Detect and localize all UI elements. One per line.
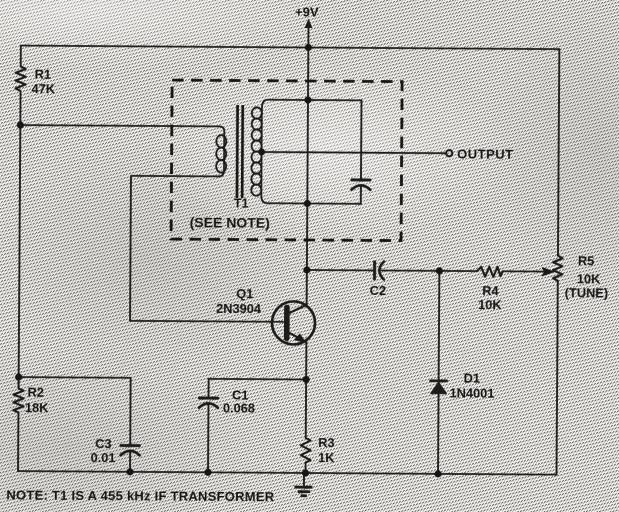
wire C1 top lead: [208, 379, 210, 396]
svg-text:OUTPUT: OUTPUT: [457, 146, 514, 161]
svg-text:NOTE: T1 IS A 455 kHz IF TRAN: NOTE: T1 IS A 455 kHz IF TRANSFORMER: [6, 487, 275, 504]
wire C2 to D1 node: [382, 269, 477, 272]
svg-text:10K: 10K: [478, 297, 502, 312]
wire left rail upper: [20, 46, 22, 67]
wire left rail lower: [17, 412, 19, 471]
wire collector node to C2: [307, 269, 373, 271]
wire secondary right side upper: [360, 100, 363, 178]
resistor R4: [477, 267, 503, 277]
svg-text:R3: R3: [318, 435, 334, 450]
wire bottom rail: [18, 471, 556, 475]
wire transformer center vertical: [306, 100, 309, 204]
wire primary to Q1 base: [130, 176, 284, 322]
capacitor C3: [121, 444, 139, 447]
svg-text:D1: D1: [464, 371, 480, 386]
node D1 / bottom rail junction: [434, 470, 441, 477]
wire 9V vertical to collector node: [306, 204, 308, 270]
node collector / C2 junction: [303, 266, 310, 273]
capacitor C2: [373, 262, 376, 279]
svg-text:R4: R4: [482, 283, 499, 298]
svg-text:0.01: 0.01: [91, 450, 116, 465]
node R1 / primary junction: [17, 121, 24, 128]
wire R3 top lead: [305, 379, 307, 437]
potentiometer R5: [553, 256, 563, 283]
transformer T1 primary winding: [218, 126, 224, 176]
wire +9V stub: [307, 27, 309, 47]
svg-text:Q1: Q1: [236, 286, 253, 301]
wire 9V vertical into transformer: [307, 47, 309, 99]
svg-text:10K: 10K: [577, 271, 601, 286]
svg-text:18K: 18K: [25, 400, 49, 415]
wire D1 branch vertical: [438, 271, 439, 474]
wire left rail middle: [19, 91, 21, 377]
transformer T1 core: [236, 105, 239, 198]
node C3 / bottom rail junction: [126, 468, 133, 475]
diode D1: [431, 379, 447, 382]
dashed enclosure box for T1: [171, 80, 402, 241]
svg-text:C2: C2: [370, 283, 386, 298]
svg-text:1N4001: 1N4001: [450, 385, 495, 400]
wire output tap: [262, 152, 446, 153]
wire R1 node to primary: [20, 125, 219, 126]
svg-text:R5: R5: [578, 253, 594, 268]
wire emitter node to C1: [209, 378, 306, 381]
node +9V / top rail junction: [305, 44, 312, 51]
resistor R3: [301, 438, 311, 463]
wire C1 bottom lead: [207, 404, 209, 472]
svg-text:+9V: +9V: [295, 4, 319, 19]
svg-text:0.068: 0.068: [223, 400, 255, 415]
svg-text:(TUNE): (TUNE): [565, 285, 608, 300]
svg-text:R2: R2: [28, 385, 44, 400]
capacitor tank (in T1 box): [352, 178, 370, 181]
node R3 / ground junction: [302, 469, 309, 476]
node C1 / bottom rail junction: [204, 469, 211, 476]
resistor R2: [13, 377, 23, 412]
transistor Q1: [272, 301, 315, 344]
resistor R1: [15, 66, 25, 91]
wire right rail lower: [557, 283, 558, 475]
power +9V arrowhead: [305, 18, 313, 28]
wire R4 to R5 wiper arrow: [503, 270, 545, 272]
wire right rail upper: [558, 49, 559, 255]
svg-text:47K: 47K: [32, 81, 56, 96]
svg-text:R1: R1: [35, 67, 51, 82]
ground symbol: [294, 473, 312, 496]
wire R2 node to C3: [18, 377, 130, 444]
node secondary bottom junction: [304, 200, 311, 207]
node secondary center tap: [258, 148, 265, 155]
node secondary top junction: [304, 96, 311, 103]
svg-text:1K: 1K: [318, 450, 335, 465]
svg-text:2N3904: 2N3904: [216, 301, 262, 316]
node R2 / C3 junction: [15, 373, 22, 380]
svg-text:C3: C3: [95, 436, 111, 451]
svg-text:T1: T1: [234, 197, 249, 211]
node C2 / R4 / D1 junction: [436, 267, 443, 274]
wire top rail: [21, 46, 559, 50]
wire C3 bottom lead: [129, 451, 131, 471]
svg-text:(SEE NOTE): (SEE NOTE): [190, 214, 270, 231]
wire Q1 emitter vertical: [305, 341, 307, 379]
node OUTPUT terminal: [446, 150, 452, 156]
wire Q1 collector vertical: [306, 270, 308, 305]
wire secondary right side lower: [360, 186, 362, 204]
node emitter / C1 junction: [303, 376, 310, 383]
transformer T1 secondary winding: [262, 100, 362, 109]
wire R3 bottom lead: [305, 463, 307, 473]
capacitor C1: [199, 396, 217, 399]
